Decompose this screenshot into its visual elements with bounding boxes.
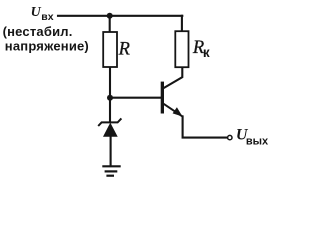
transistor Q1 emitter line xyxy=(164,104,183,117)
resistor R xyxy=(103,32,117,67)
wire right drop to Rk xyxy=(181,16,183,32)
svg-text:вых: вых xyxy=(246,136,269,148)
svg-text:R: R xyxy=(118,39,130,59)
ground bar 3 xyxy=(106,175,114,177)
wire emitter to output terminal xyxy=(183,116,228,137)
svg-text:U: U xyxy=(31,5,42,20)
transistor Q1 emitter arrow xyxy=(173,107,183,116)
node B junction dot (base branch) xyxy=(107,95,113,101)
wire R bottom to base node and zener xyxy=(109,67,111,123)
ground bar 1 xyxy=(102,165,120,167)
transistor Q1 base bar xyxy=(161,82,164,114)
svg-text:(нестабил.: (нестабил. xyxy=(3,24,73,39)
node A junction dot (top rail) xyxy=(107,13,113,19)
wire left rail upper (node to R top) xyxy=(109,16,111,33)
diode VD1 zener triangle xyxy=(103,123,118,137)
svg-text:напряжение): напряжение) xyxy=(5,38,89,53)
svg-text:к: к xyxy=(203,45,210,60)
wire base (node to transistor base) xyxy=(110,97,161,99)
wire Rk bottom to collector xyxy=(164,67,183,89)
diode VD1 zener cathode bar xyxy=(98,118,121,126)
svg-text:вх: вх xyxy=(41,11,53,23)
output terminal circle xyxy=(228,135,232,139)
wire top rail xyxy=(58,15,182,17)
resistor Rk xyxy=(175,31,188,67)
ground bar 2 xyxy=(105,170,118,172)
wire zener to ground xyxy=(110,136,112,166)
